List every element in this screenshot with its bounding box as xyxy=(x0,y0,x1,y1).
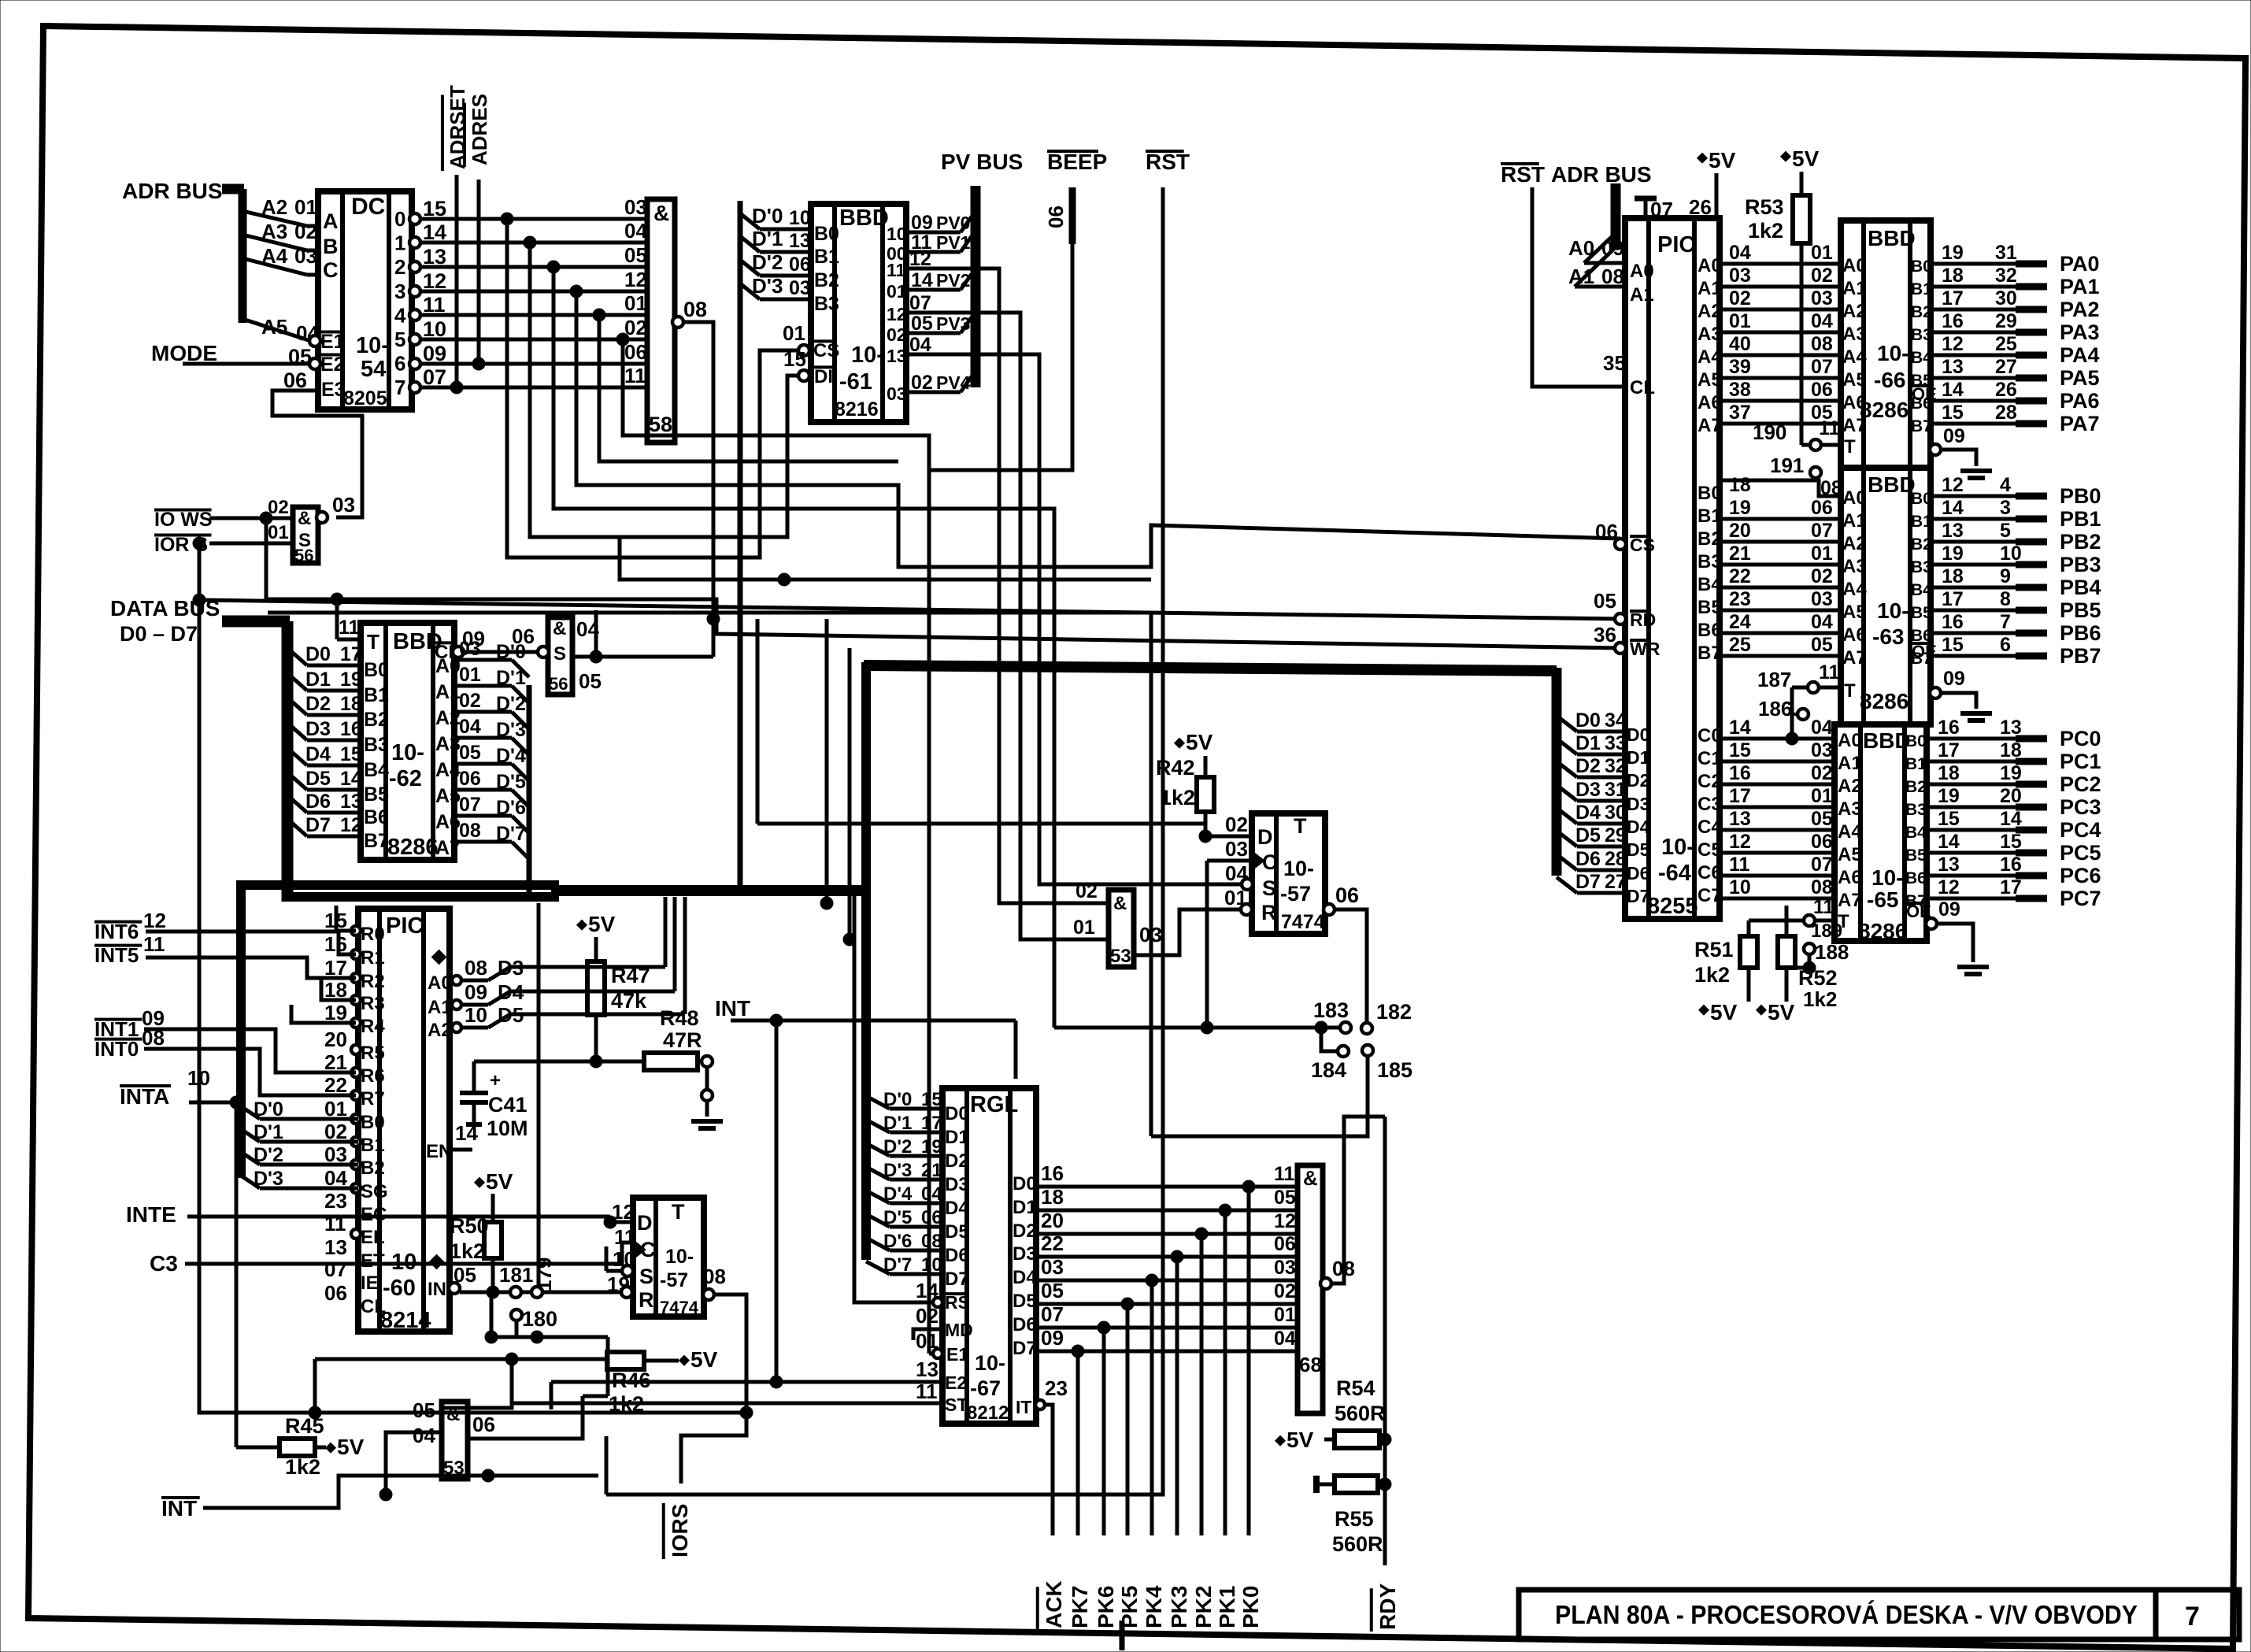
svg-text:D'0: D'0 xyxy=(752,204,783,228)
svg-text:12: 12 xyxy=(1729,831,1751,853)
contact 182 xyxy=(1361,1023,1372,1034)
wire INTA down to R45 xyxy=(235,1102,239,1447)
junction row5 xyxy=(616,333,629,346)
svg-text:D6: D6 xyxy=(1013,1314,1037,1335)
junction PK row 0 xyxy=(1242,1180,1255,1193)
svg-text:5V: 5V xyxy=(1709,148,1736,172)
svg-text:D7: D7 xyxy=(305,814,331,836)
svg-text:B1: B1 xyxy=(1698,506,1722,527)
7474a D stub xyxy=(610,1220,633,1224)
wire A4 from bus xyxy=(243,258,307,275)
wire 8255 D1 fan xyxy=(1557,739,1577,754)
svg-text:32: 32 xyxy=(1995,265,2017,287)
wire port C row 3 xyxy=(1720,806,1834,809)
junction IOWS xyxy=(260,512,272,524)
wire E1 feed xyxy=(929,1352,933,1356)
wire PA6 xyxy=(1931,399,2016,403)
resistor R46 1k2 xyxy=(315,1358,607,1361)
svg-text:19: 19 xyxy=(921,1136,942,1158)
wire PK vertical 2 xyxy=(1200,1234,1204,1535)
svg-text:01: 01 xyxy=(1811,543,1833,565)
svg-text:B2: B2 xyxy=(1911,303,1932,321)
wire 8205 row2 to gate58 xyxy=(420,265,647,269)
svg-text:A5: A5 xyxy=(261,315,287,339)
svg-text:184: 184 xyxy=(1311,1058,1346,1082)
wire port A row 6 xyxy=(1720,399,1841,403)
junction ADRES row6 xyxy=(472,357,485,370)
junction INTA xyxy=(230,1096,243,1109)
gate53b input 04 wire xyxy=(386,1432,442,1495)
svg-text:T: T xyxy=(1844,436,1856,457)
svg-text:16: 16 xyxy=(1729,762,1751,784)
svg-text:B7: B7 xyxy=(364,830,389,852)
svg-text:-63: -63 xyxy=(1872,624,1904,649)
wire 8212 D'6 xyxy=(866,1238,890,1250)
junction PK row 6 xyxy=(1098,1321,1110,1334)
junction T-net at 8286 T xyxy=(331,593,343,606)
svg-text:A0: A0 xyxy=(1630,261,1654,282)
svg-text:A1: A1 xyxy=(428,997,452,1018)
svg-text:B1: B1 xyxy=(1911,513,1932,531)
svg-text:10: 10 xyxy=(789,207,811,229)
svg-text:03: 03 xyxy=(789,277,811,299)
nand gate U56b box xyxy=(548,617,572,695)
wire RST long vertical xyxy=(606,187,1163,1495)
wire 8205 row7 to gate58 xyxy=(420,386,647,390)
svg-text:8286: 8286 xyxy=(1860,398,1909,422)
wire 8216 out row 1 xyxy=(906,250,961,254)
svg-text:04: 04 xyxy=(1811,611,1833,633)
svg-text:09: 09 xyxy=(1938,898,1960,920)
wire 8205 row4 to gate58 xyxy=(420,313,647,317)
svg-text:PK0: PK0 xyxy=(1238,1586,1263,1628)
svg-text:05: 05 xyxy=(454,1263,476,1287)
svg-text:37: 37 xyxy=(1729,402,1751,424)
ground 10-66 xyxy=(1960,469,1992,473)
junction gate58 RD tee xyxy=(707,613,720,625)
and gate U53a box xyxy=(1109,890,1134,967)
svg-text:01: 01 xyxy=(1811,785,1833,807)
svg-text:MODE: MODE xyxy=(151,341,217,365)
wire port C row 2 xyxy=(1720,783,1834,787)
svg-text:01: 01 xyxy=(268,522,289,543)
junction row4 xyxy=(593,309,605,321)
svg-text:D: D xyxy=(637,1211,653,1235)
svg-text:C4: C4 xyxy=(1698,817,1722,838)
junction PK row 2 xyxy=(1195,1228,1208,1240)
svg-text:A1: A1 xyxy=(1568,265,1594,288)
8212 RS pin xyxy=(933,1298,942,1307)
svg-text:B5: B5 xyxy=(1911,604,1932,622)
wire 180 node horizontal xyxy=(491,1335,608,1339)
svg-text:PK3: PK3 xyxy=(1167,1586,1191,1628)
8205 E1 E2 pin circles xyxy=(309,335,320,346)
svg-text:B2: B2 xyxy=(1698,528,1722,550)
svg-text:47R: 47R xyxy=(663,1028,702,1052)
svg-text:05: 05 xyxy=(1811,808,1833,830)
svg-text:D'3: D'3 xyxy=(752,274,783,298)
svg-text:07: 07 xyxy=(1811,356,1833,378)
svg-text:03: 03 xyxy=(887,383,907,404)
svg-text:1k2: 1k2 xyxy=(1160,786,1195,809)
svg-text:D'0: D'0 xyxy=(883,1089,912,1110)
svg-text:D2: D2 xyxy=(1575,755,1601,777)
wire 190 to T xyxy=(1801,443,1841,447)
wire OE65 to ground xyxy=(1937,924,1973,962)
svg-text:560R: 560R xyxy=(1335,1402,1386,1425)
contact 188 xyxy=(1804,943,1815,954)
wire INT5 xyxy=(146,957,356,978)
svg-text:PC0: PC0 xyxy=(2060,727,2101,750)
svg-text:A7: A7 xyxy=(1838,890,1862,911)
svg-text:A5: A5 xyxy=(1698,369,1722,391)
svg-text:B3: B3 xyxy=(1905,801,1927,819)
svg-text:09: 09 xyxy=(1943,668,1965,690)
svg-text:D5: D5 xyxy=(305,768,331,790)
wire port A row 0 xyxy=(1720,262,1841,266)
svg-text:14: 14 xyxy=(1942,379,1964,401)
svg-text:11: 11 xyxy=(887,260,906,280)
wire IOWS xyxy=(209,517,293,520)
wire 7474b Q to 182 xyxy=(1335,909,1367,1022)
svg-text:D'0: D'0 xyxy=(496,641,526,663)
wire INT xyxy=(203,1476,598,1508)
svg-text:4: 4 xyxy=(2000,474,2011,496)
svg-text:D4: D4 xyxy=(1627,817,1650,837)
wire 8212 out D7 xyxy=(1036,1350,1298,1354)
svg-text:1k2: 1k2 xyxy=(450,1239,485,1263)
wire 8216 out row 0 xyxy=(906,231,961,235)
svg-text:D7: D7 xyxy=(1575,871,1601,893)
8216 DI circle xyxy=(798,370,809,381)
wire D7 fan xyxy=(287,819,307,836)
junction R47 C41 xyxy=(590,1055,602,1068)
svg-text:PIC: PIC xyxy=(386,913,424,939)
svg-text:02: 02 xyxy=(268,497,289,518)
svg-text:A5: A5 xyxy=(1842,369,1867,391)
8212 IT pin xyxy=(1035,1400,1045,1409)
wire PA0 xyxy=(1931,262,2016,266)
svg-text:PA2: PA2 xyxy=(2060,298,2100,321)
svg-text:10-: 10- xyxy=(1877,598,1909,623)
wire 8212 D'3 xyxy=(866,1167,890,1180)
contact 187 xyxy=(1808,682,1819,693)
8255 WR circle xyxy=(1615,643,1626,654)
wire RST right to CL xyxy=(1532,187,1625,387)
svg-text:B1: B1 xyxy=(814,246,839,268)
wire port C row 5 xyxy=(1720,851,1834,855)
svg-text:02: 02 xyxy=(1225,813,1248,836)
contact 189 xyxy=(1804,915,1815,926)
svg-text:03: 03 xyxy=(1811,287,1833,309)
svg-text:PC7: PC7 xyxy=(2060,887,2101,910)
wire R46 left vertical xyxy=(313,1359,317,1413)
svg-text:INT: INT xyxy=(715,996,750,1020)
svg-text:9: 9 xyxy=(2000,565,2011,587)
resistor R50 1k2 xyxy=(475,1177,485,1187)
svg-text:INTE: INTE xyxy=(126,1202,176,1227)
wire A4 out fan xyxy=(454,762,512,766)
wire port A row 7 xyxy=(1720,422,1841,426)
svg-text:D4: D4 xyxy=(1013,1267,1037,1288)
svg-text:04: 04 xyxy=(624,219,647,243)
svg-text:B3: B3 xyxy=(1911,326,1932,344)
gate68 output circle xyxy=(1320,1278,1331,1289)
wire port B row 5 xyxy=(1720,609,1841,613)
junction C feed 183 xyxy=(1201,1021,1213,1034)
wire port B row 2 xyxy=(1720,540,1841,544)
svg-text:06: 06 xyxy=(789,254,811,276)
svg-text:CS: CS xyxy=(813,340,839,361)
7474b clock triangle xyxy=(1253,852,1264,869)
svg-text:-57: -57 xyxy=(660,1269,688,1291)
wire 8212 out D4 xyxy=(1036,1279,1298,1283)
svg-text:ADR BUS: ADR BUS xyxy=(1551,162,1652,187)
svg-text:13: 13 xyxy=(887,346,907,366)
wire 183 to 184 xyxy=(1321,1028,1337,1051)
svg-text:02: 02 xyxy=(1811,265,1833,287)
wire 7474a Q down to IORS node xyxy=(714,1295,746,1413)
svg-text:06: 06 xyxy=(921,1207,942,1228)
junction INT E2 xyxy=(770,1376,783,1388)
wire row5 drop xyxy=(623,339,929,470)
svg-text:17: 17 xyxy=(1942,287,1964,309)
svg-text:B5: B5 xyxy=(1905,846,1927,865)
svg-text:D'2: D'2 xyxy=(752,250,783,274)
svg-text:13: 13 xyxy=(789,230,811,252)
svg-text:06: 06 xyxy=(1811,497,1833,519)
wire D'0 to 8216 xyxy=(740,213,760,229)
svg-text:T: T xyxy=(1294,814,1307,838)
wire 8212 out D6 xyxy=(1036,1326,1298,1330)
svg-text:A3: A3 xyxy=(1842,324,1867,345)
svg-text:14: 14 xyxy=(916,1279,939,1302)
svg-text:B6: B6 xyxy=(364,806,389,828)
svg-text:B4: B4 xyxy=(1905,824,1927,842)
svg-text:23: 23 xyxy=(1729,588,1751,610)
svg-text:PA6: PA6 xyxy=(2060,389,2100,413)
svg-text:8205: 8205 xyxy=(343,387,387,409)
svg-text:1k2: 1k2 xyxy=(1748,219,1783,243)
wire port C row 6 xyxy=(1720,874,1834,878)
svg-text:A4: A4 xyxy=(1842,579,1867,600)
svg-text:A1: A1 xyxy=(1630,284,1654,306)
data bus thick vertical to PIC fan xyxy=(236,885,246,1178)
svg-text:A7: A7 xyxy=(1698,415,1722,436)
svg-text:15: 15 xyxy=(921,1089,942,1110)
svg-text:E1: E1 xyxy=(946,1344,968,1365)
svg-text:16: 16 xyxy=(1041,1161,1064,1185)
wire INT net vertical xyxy=(775,1020,779,1382)
wire PC5 xyxy=(1927,851,2016,855)
svg-text:PV1: PV1 xyxy=(936,232,971,253)
wire 8216 row 07 drop to gate53 xyxy=(906,313,1109,939)
svg-text:20: 20 xyxy=(324,1028,347,1051)
svg-text:D'4: D'4 xyxy=(496,745,526,767)
svg-text:A2: A2 xyxy=(1698,301,1722,322)
svg-text:C2: C2 xyxy=(1698,771,1722,792)
junction PK row 7 xyxy=(1072,1345,1084,1358)
svg-text:C6: C6 xyxy=(1698,862,1722,883)
svg-text:B0: B0 xyxy=(1905,732,1927,750)
svg-text:PC6: PC6 xyxy=(2060,864,2101,887)
plus5v R54 xyxy=(1275,1435,1286,1446)
svg-text:PA1: PA1 xyxy=(2060,275,2100,298)
svg-text:D4: D4 xyxy=(945,1198,969,1219)
PIC output A0 D3 xyxy=(450,979,453,983)
svg-text:IO WS: IO WS xyxy=(154,509,213,531)
svg-text:06: 06 xyxy=(472,1413,495,1436)
wire port C row 0 xyxy=(1720,737,1834,741)
svg-text:24: 24 xyxy=(1729,611,1751,633)
svg-text:13: 13 xyxy=(916,1358,939,1381)
junction gate56b out xyxy=(590,650,602,663)
ground 10-63 xyxy=(1960,711,1992,716)
wire row3 drop xyxy=(576,291,1620,567)
svg-text:D3: D3 xyxy=(305,718,331,740)
svg-text:EN: EN xyxy=(426,1141,452,1162)
svg-text:03: 03 xyxy=(1041,1255,1064,1279)
svg-text:ADR BUS: ADR BUS xyxy=(122,179,223,203)
svg-text:06: 06 xyxy=(324,1281,347,1305)
svg-text:B6: B6 xyxy=(1905,869,1927,887)
junction R50 xyxy=(487,1286,499,1298)
wire PIC D'2 xyxy=(241,1152,260,1165)
svg-text:17: 17 xyxy=(921,1113,942,1134)
svg-text:188: 188 xyxy=(1815,940,1849,964)
svg-text:B0: B0 xyxy=(1698,483,1722,504)
svg-text:25: 25 xyxy=(1729,634,1751,656)
wire port B row 7 xyxy=(1720,654,1841,658)
svg-text:D0: D0 xyxy=(945,1103,969,1124)
svg-text:04: 04 xyxy=(459,716,481,738)
svg-text:B2: B2 xyxy=(361,1158,385,1179)
wire PK vertical 0 xyxy=(1247,1187,1251,1535)
wire port A row 3 xyxy=(1720,331,1841,335)
svg-text:20: 20 xyxy=(1041,1209,1064,1232)
svg-text:D1: D1 xyxy=(945,1127,969,1148)
svg-text:1k2: 1k2 xyxy=(1803,987,1837,1011)
svg-text:22: 22 xyxy=(1041,1232,1064,1255)
svg-text:R55: R55 xyxy=(1335,1507,1374,1531)
svg-text:12: 12 xyxy=(887,304,907,324)
svg-text:B7: B7 xyxy=(1911,417,1932,435)
svg-text:A2: A2 xyxy=(1842,301,1867,322)
ppi U 10-64 8255 box xyxy=(1625,218,1720,919)
svg-text:10-: 10- xyxy=(356,333,389,358)
7474b output circle 06 xyxy=(1324,904,1335,915)
wire 8205 row0 to gate58 xyxy=(420,217,647,221)
svg-text:B1: B1 xyxy=(361,1135,385,1156)
buffer U 10-61 8216 box xyxy=(811,204,906,422)
svg-text:03: 03 xyxy=(332,493,355,517)
svg-text:07: 07 xyxy=(1041,1302,1064,1326)
svg-text:11: 11 xyxy=(143,932,165,956)
svg-text:56: 56 xyxy=(549,674,568,694)
wire PB6 xyxy=(1931,632,2016,635)
svg-text:D2: D2 xyxy=(305,693,331,715)
svg-text:06: 06 xyxy=(1044,206,1068,228)
svg-text:B6: B6 xyxy=(1911,627,1932,645)
wire BEEP xyxy=(1069,187,1076,244)
junction 180b xyxy=(531,1331,543,1343)
svg-text:13: 13 xyxy=(1942,356,1964,378)
svg-text:R53: R53 xyxy=(1745,195,1784,219)
10-66 OE circle xyxy=(1930,444,1941,455)
svg-text:08: 08 xyxy=(142,1026,165,1050)
wire 8216 out row 3 xyxy=(906,288,961,292)
wire PC1 xyxy=(1927,760,2016,764)
wire port A row 5 xyxy=(1720,376,1841,380)
wire 8255 D4 fan xyxy=(1557,808,1577,824)
wire INT1 xyxy=(144,1029,356,1072)
svg-text:30: 30 xyxy=(1995,287,2017,309)
svg-text:A3: A3 xyxy=(1698,324,1722,345)
wire 8205 row1 to gate58 xyxy=(420,241,647,245)
svg-text:B7: B7 xyxy=(1911,650,1932,668)
wire RDY vertical xyxy=(1383,1117,1387,1565)
wire PC4 xyxy=(1927,828,2016,832)
wire A1 out fan xyxy=(454,684,512,688)
svg-text:PB2: PB2 xyxy=(2060,530,2101,554)
svg-text:D'3: D'3 xyxy=(883,1160,912,1181)
svg-text:D1: D1 xyxy=(305,669,331,691)
svg-text:17: 17 xyxy=(1729,785,1751,807)
svg-text:D'2: D'2 xyxy=(254,1144,283,1166)
svg-text:D1: D1 xyxy=(1627,747,1650,768)
wire PA2 xyxy=(1931,308,2016,312)
wire PB5 xyxy=(1931,609,2016,613)
svg-text:D6: D6 xyxy=(945,1245,969,1266)
svg-text:7: 7 xyxy=(2185,1602,2200,1632)
wire ADRES vertical xyxy=(477,180,481,364)
svg-text:C5: C5 xyxy=(1698,839,1722,861)
wire node to R46 row xyxy=(606,1337,610,1396)
svg-text:D'3: D'3 xyxy=(254,1168,283,1190)
wire 8255 D3 fan xyxy=(1557,785,1577,801)
svg-text:A0: A0 xyxy=(1842,487,1867,509)
svg-text:B6: B6 xyxy=(1698,620,1722,641)
svg-text:INTA: INTA xyxy=(120,1084,169,1109)
svg-text:ET: ET xyxy=(361,1250,385,1272)
svg-text:DC: DC xyxy=(351,194,385,220)
svg-text:ST: ST xyxy=(945,1395,968,1415)
svg-text:A3: A3 xyxy=(261,220,287,243)
wire PB0 xyxy=(1931,494,2016,498)
svg-text:B1: B1 xyxy=(364,684,389,706)
svg-text:PB3: PB3 xyxy=(2060,553,2101,576)
svg-text:182: 182 xyxy=(1376,1000,1412,1024)
svg-text:02: 02 xyxy=(911,372,933,394)
svg-text:01: 01 xyxy=(1073,917,1095,939)
svg-text:B: B xyxy=(323,235,339,258)
resistor R47 47k xyxy=(577,920,587,930)
svg-text:07: 07 xyxy=(324,1258,347,1281)
8255 RD circle xyxy=(1615,613,1626,624)
svg-text:58: 58 xyxy=(649,413,672,436)
wire PIC D'0 xyxy=(241,1106,260,1119)
svg-text:D: D xyxy=(1257,825,1273,849)
wire A5 from bus to E1 xyxy=(243,319,311,341)
junction PK row 5 xyxy=(1121,1298,1134,1310)
wire C3 to 7474a C xyxy=(185,1243,633,1264)
svg-text:SG: SG xyxy=(361,1181,388,1202)
svg-text:6: 6 xyxy=(2000,634,2011,656)
svg-text:C41: C41 xyxy=(488,1093,528,1117)
junction PK row 4 xyxy=(1146,1274,1158,1287)
svg-text:PB5: PB5 xyxy=(2060,598,2101,622)
PIC output A1 D4 xyxy=(450,1003,453,1007)
